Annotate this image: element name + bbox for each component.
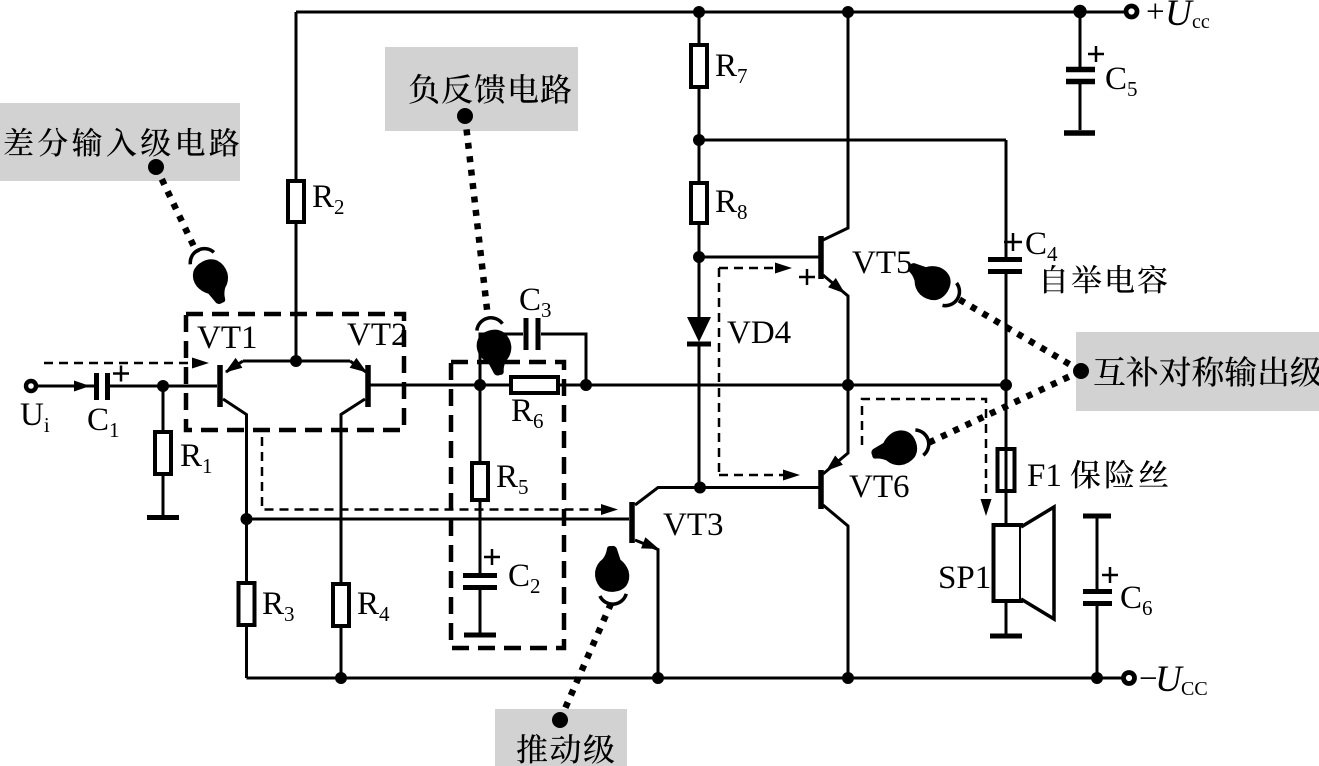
svg-text:R2: R2 — [312, 179, 345, 219]
svg-text:VD4: VD4 — [727, 315, 791, 351]
svg-text:C5: C5 — [1105, 61, 1138, 101]
svg-text:R8: R8 — [715, 184, 748, 224]
svg-text:F1: F1 — [1027, 458, 1062, 494]
svg-text:SP1: SP1 — [938, 560, 991, 596]
svg-text:R1: R1 — [180, 438, 213, 478]
svg-text:U: U — [1165, 0, 1194, 34]
svg-text:C6: C6 — [1120, 580, 1153, 620]
svg-text:VT5: VT5 — [852, 245, 913, 281]
svg-text:R3: R3 — [262, 586, 295, 626]
svg-text:C3: C3 — [519, 282, 552, 322]
svg-text:CC: CC — [1181, 678, 1208, 700]
svg-text:VT2: VT2 — [347, 317, 408, 353]
svg-text:C2: C2 — [508, 558, 541, 598]
svg-text:R6: R6 — [511, 393, 544, 433]
svg-text:R7: R7 — [715, 48, 748, 88]
svg-text:cc: cc — [1192, 11, 1210, 33]
svg-text:C4: C4 — [1025, 226, 1058, 266]
svg-text:C1: C1 — [87, 402, 120, 442]
svg-text:U: U — [1155, 659, 1184, 700]
svg-text:Ui: Ui — [20, 397, 50, 437]
svg-text:R5: R5 — [496, 459, 529, 499]
svg-text:VT1: VT1 — [197, 320, 258, 356]
svg-text:+: + — [1146, 0, 1165, 30]
svg-text:VT6: VT6 — [849, 469, 910, 505]
svg-text:VT3: VT3 — [663, 507, 724, 543]
svg-text:R4: R4 — [357, 586, 390, 626]
